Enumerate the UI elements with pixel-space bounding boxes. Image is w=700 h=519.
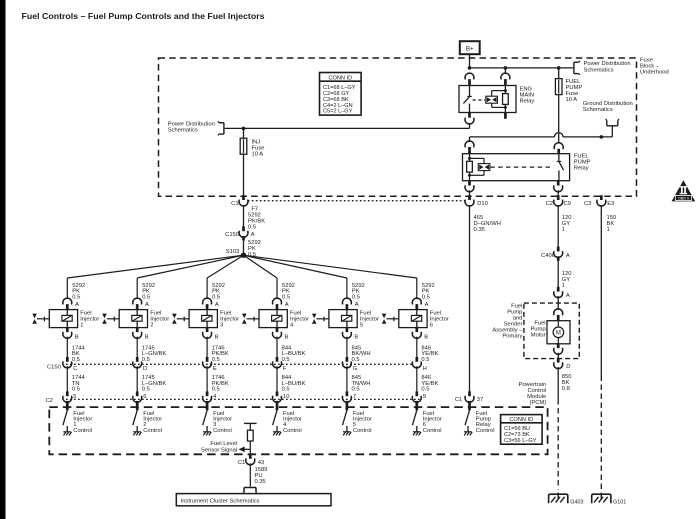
- svg-text:0.5: 0.5: [72, 294, 80, 300]
- svg-text:CONN ID: CONN ID: [509, 417, 533, 423]
- svg-text:B: B: [75, 334, 79, 340]
- svg-text:Fuel Controls – Fuel Pump Cont: Fuel Controls – Fuel Pump Controls and t…: [22, 12, 266, 21]
- svg-text:A: A: [215, 302, 219, 308]
- svg-text:10 A: 10 A: [566, 97, 578, 103]
- svg-text:0.5: 0.5: [352, 294, 360, 300]
- svg-text:1: 1: [607, 227, 610, 233]
- svg-text:Power Distribution: Power Distribution: [584, 61, 631, 67]
- svg-text:0.5: 0.5: [282, 387, 290, 393]
- svg-text:0.5: 0.5: [142, 357, 150, 363]
- svg-text:43: 43: [258, 460, 264, 466]
- svg-text:5: 5: [360, 322, 363, 328]
- svg-text:Ground Distribution: Ground Distribution: [583, 101, 633, 107]
- svg-text:E: E: [213, 366, 217, 372]
- svg-text:4: 4: [290, 322, 294, 328]
- svg-text:C: C: [73, 366, 77, 372]
- svg-text:0.8: 0.8: [562, 386, 570, 392]
- svg-text:0.5: 0.5: [282, 357, 290, 363]
- svg-text:37: 37: [477, 397, 483, 403]
- svg-text:0.5: 0.5: [422, 294, 430, 300]
- svg-text:0.5: 0.5: [352, 357, 360, 363]
- svg-text:0.5: 0.5: [212, 294, 220, 300]
- svg-text:C2: C2: [546, 201, 553, 207]
- svg-text:0.5: 0.5: [421, 357, 429, 363]
- svg-text:C3: C3: [584, 201, 591, 207]
- svg-text:Control: Control: [213, 428, 232, 434]
- svg-text:Power Distribution: Power Distribution: [168, 121, 215, 127]
- svg-text:A: A: [566, 253, 570, 259]
- svg-text:OBD II: OBD II: [678, 197, 689, 201]
- svg-text:A: A: [566, 293, 570, 299]
- svg-text:0.35: 0.35: [255, 479, 266, 485]
- svg-text:Control: Control: [73, 428, 92, 434]
- svg-text:S103: S103: [226, 249, 240, 255]
- svg-text:Control: Control: [143, 428, 162, 434]
- svg-text:1: 1: [562, 283, 565, 289]
- svg-text:0.5: 0.5: [72, 387, 80, 393]
- svg-text:C9: C9: [564, 201, 571, 207]
- svg-text:(PCM): (PCM): [529, 400, 546, 406]
- svg-text:B: B: [424, 334, 428, 340]
- svg-text:C5=2 L–GY: C5=2 L–GY: [323, 109, 353, 115]
- svg-text:Schematics: Schematics: [583, 107, 613, 113]
- svg-text:Control: Control: [283, 428, 302, 434]
- svg-text:C1: C1: [231, 201, 238, 207]
- svg-text:D10: D10: [477, 201, 488, 207]
- svg-text:B+: B+: [466, 46, 474, 53]
- svg-text:B: B: [215, 334, 219, 340]
- svg-text:Control: Control: [353, 428, 372, 434]
- svg-text:A: A: [285, 302, 289, 308]
- svg-text:0.5: 0.5: [142, 387, 150, 393]
- svg-text:Underhood: Underhood: [640, 70, 669, 76]
- svg-text:A: A: [425, 302, 429, 308]
- svg-text:0.5: 0.5: [421, 387, 429, 393]
- svg-text:D: D: [566, 364, 570, 370]
- svg-text:10 A: 10 A: [252, 151, 264, 157]
- svg-text:C3=56 L–GY: C3=56 L–GY: [504, 438, 537, 444]
- svg-text:B: B: [354, 334, 358, 340]
- svg-text:A: A: [75, 302, 79, 308]
- svg-text:0.5: 0.5: [352, 387, 360, 393]
- svg-text:Fuel Level: Fuel Level: [210, 441, 237, 447]
- svg-text:0.35: 0.35: [474, 227, 485, 233]
- svg-text:A: A: [251, 232, 255, 238]
- svg-text:H: H: [423, 366, 427, 372]
- svg-text:C1: C1: [455, 397, 462, 403]
- svg-text:Instrument Cluster Schematics: Instrument Cluster Schematics: [181, 499, 260, 505]
- svg-text:1: 1: [562, 227, 565, 233]
- svg-text:0.5: 0.5: [248, 224, 256, 230]
- svg-text:3: 3: [220, 322, 223, 328]
- svg-text:0.5: 0.5: [142, 294, 150, 300]
- svg-text:Relay: Relay: [574, 165, 589, 171]
- svg-text:C2: C2: [46, 398, 53, 404]
- svg-text:2: 2: [150, 322, 153, 328]
- svg-text:A: A: [355, 302, 359, 308]
- svg-text:C1=56 BU: C1=56 BU: [504, 426, 530, 432]
- svg-text:Control: Control: [423, 428, 442, 434]
- svg-text:E3: E3: [607, 201, 614, 207]
- svg-text:A: A: [145, 302, 149, 308]
- svg-text:C2=73 BK: C2=73 BK: [504, 432, 530, 438]
- svg-text:Motor: Motor: [531, 332, 546, 338]
- svg-text:C406: C406: [541, 253, 555, 259]
- svg-text:0.5: 0.5: [282, 294, 290, 300]
- svg-text:C150: C150: [225, 232, 239, 238]
- svg-text:G101: G101: [613, 500, 626, 506]
- svg-text:G403: G403: [570, 500, 583, 506]
- svg-text:Sensor Signal: Sensor Signal: [201, 447, 237, 453]
- svg-text:B: B: [145, 334, 149, 340]
- svg-text:6: 6: [430, 322, 433, 328]
- svg-text:F: F: [283, 366, 287, 372]
- svg-text:9: 9: [423, 394, 426, 400]
- svg-text:G: G: [353, 366, 358, 372]
- svg-text:M: M: [556, 331, 561, 337]
- svg-text:1: 1: [80, 322, 83, 328]
- svg-text:0.5: 0.5: [212, 387, 220, 393]
- svg-text:Control: Control: [476, 428, 495, 434]
- svg-text:Schematics: Schematics: [168, 128, 198, 134]
- svg-text:Schematics: Schematics: [584, 67, 614, 73]
- svg-text:0.5: 0.5: [72, 357, 80, 363]
- svg-text:D: D: [143, 366, 147, 372]
- svg-text:Relay: Relay: [520, 98, 535, 104]
- svg-text:C1: C1: [238, 460, 245, 466]
- svg-text:C150: C150: [47, 365, 61, 371]
- svg-text:B: B: [285, 334, 289, 340]
- svg-text:CONN ID: CONN ID: [328, 76, 352, 82]
- svg-text:Primary: Primary: [502, 334, 522, 340]
- svg-text:0.5: 0.5: [212, 357, 220, 363]
